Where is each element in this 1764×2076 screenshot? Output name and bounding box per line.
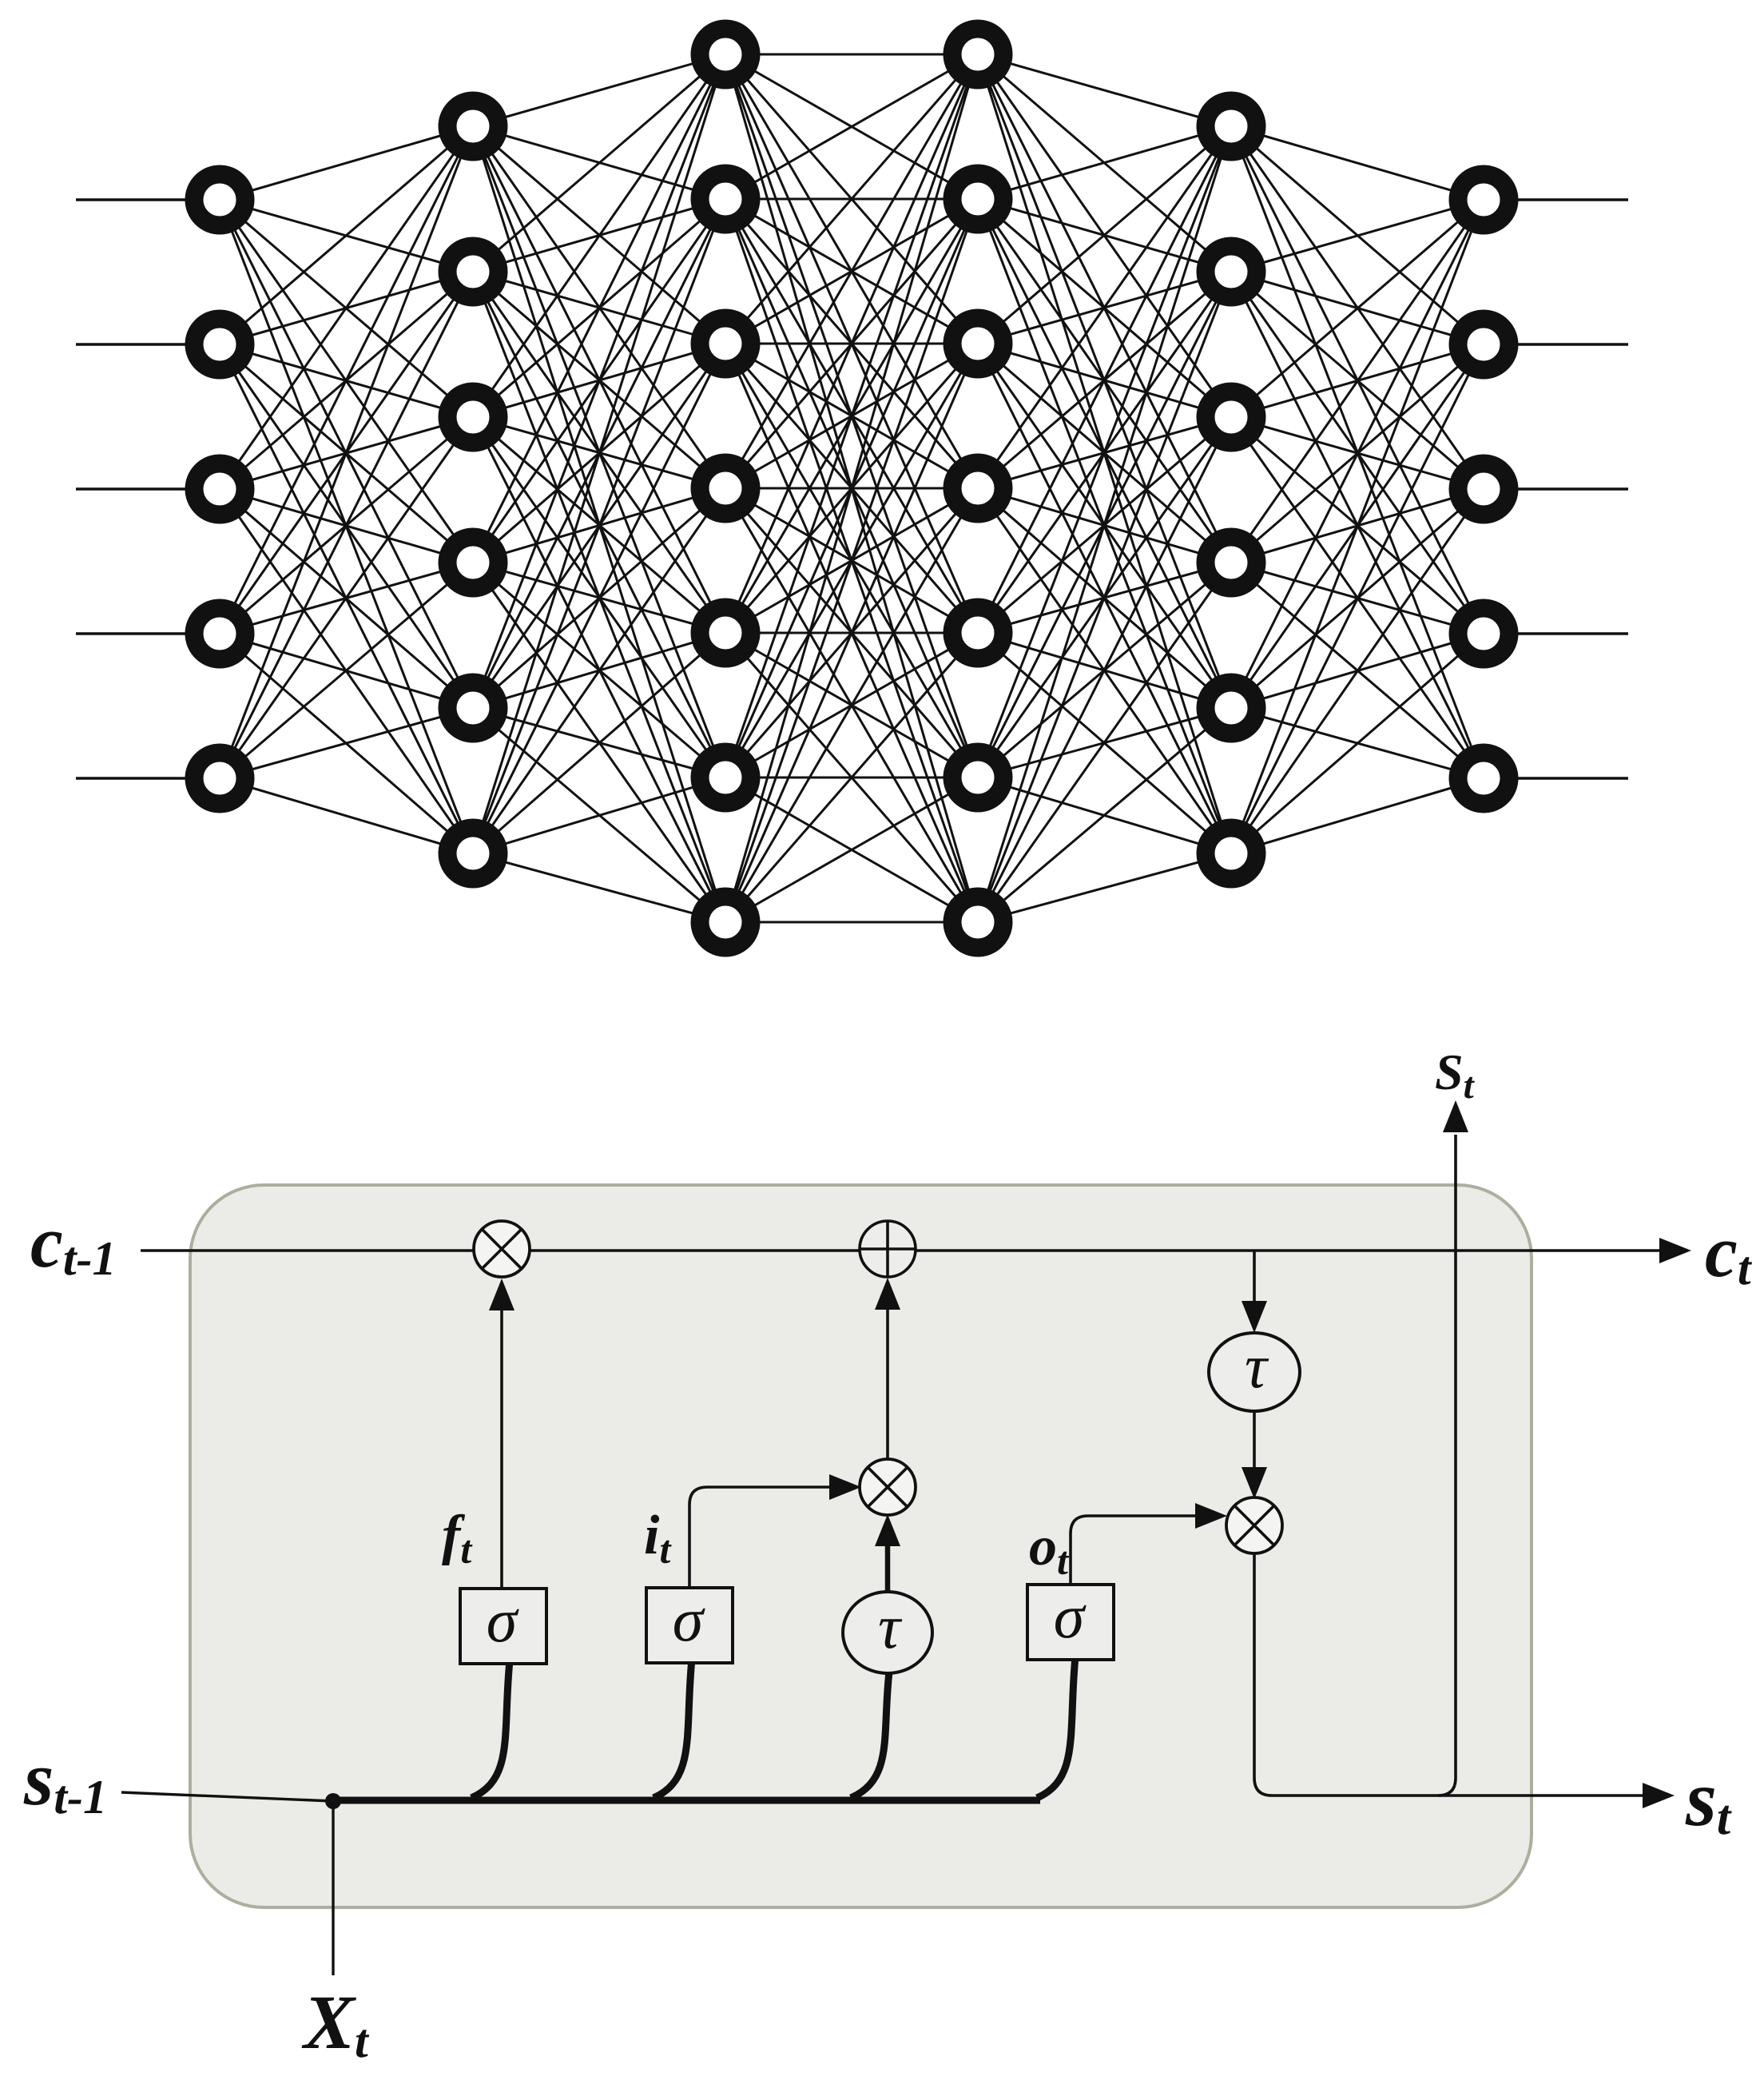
node column: hidden layer 3 neurons bbox=[952, 29, 1003, 948]
svg-text:τ: τ bbox=[878, 1592, 903, 1661]
wire: c_(t-1) to c_t horizontal cell-state line with arrow bbox=[141, 1238, 1691, 1263]
node column: hidden layer 4 neurons bbox=[1206, 101, 1257, 879]
wire bundle: layer 5 to layer 6 full connections bbox=[1231, 126, 1484, 853]
wire: branch up to S_t output at top bbox=[1438, 1100, 1468, 1796]
node column: hidden layer 1 neurons bbox=[447, 101, 499, 879]
wire bundle: layer 2 to layer 3 full connections bbox=[473, 54, 725, 922]
wire bundle: layer 3 to layer 4 full connections bbox=[725, 54, 978, 922]
wire: i_t path from sigma gate to multiply node bbox=[689, 1474, 861, 1589]
wire: input stub lines (left) bbox=[76, 200, 220, 778]
node column: output layer neurons bbox=[1458, 174, 1509, 804]
node column: input layer neurons bbox=[194, 174, 245, 804]
node: junction dot on s line bbox=[325, 1793, 341, 1809]
wire: thick s_(t-1) bus line bbox=[333, 1797, 1040, 1804]
wire: output path from multiply node down and right to s_t arrow bbox=[1254, 1553, 1675, 1808]
wire: curve from bus into tau gate bbox=[851, 1672, 889, 1798]
wire bundle: layer 4 to layer 5 full connections bbox=[978, 54, 1231, 922]
op node: multiply (output) node bbox=[1226, 1497, 1282, 1553]
wire: output stub lines (right) bbox=[1484, 200, 1628, 778]
wire: arrow from tau gate up to multiply node bbox=[875, 1514, 900, 1592]
wire: arrow from multiply node up to add node bbox=[875, 1278, 900, 1460]
wire: curve from bus into sigma f gate bbox=[471, 1660, 510, 1798]
wire: s_(t-1) lead-in line bbox=[121, 1792, 333, 1801]
op node: add node on c line bbox=[860, 1221, 916, 1277]
op node: tau (tanh) upper right bbox=[1209, 1331, 1300, 1411]
LSTM cell body (rounded box) bbox=[190, 1185, 1532, 1907]
wire bundle: layer 1 to layer 2 full connections bbox=[220, 126, 473, 853]
wire: arrow from tau node down to output multiply node bbox=[1242, 1411, 1267, 1499]
node column: hidden layer 2 neurons bbox=[700, 29, 751, 948]
op node: multiply (input) node bbox=[860, 1459, 916, 1515]
op box: sigma gate o bbox=[1027, 1581, 1114, 1660]
wire: curve from bus into sigma i gate bbox=[654, 1659, 692, 1798]
wire: arrow from c line down into tau node bbox=[1242, 1251, 1267, 1333]
svg-text:σ: σ bbox=[487, 1585, 519, 1655]
svg-text:σ: σ bbox=[1054, 1581, 1087, 1651]
wire: o_t path from sigma gate to output multiply node bbox=[1071, 1503, 1227, 1585]
wire: f_t arrow from sigma gate up to multiply node bbox=[489, 1279, 514, 1589]
wire: curve from bus into sigma o gate bbox=[1037, 1656, 1075, 1798]
op box: sigma gate f bbox=[460, 1585, 546, 1664]
svg-text:τ: τ bbox=[1245, 1331, 1269, 1401]
wire: x_t input vertical line bbox=[332, 1801, 334, 1975]
op node: tau (tanh) lower bbox=[843, 1592, 932, 1673]
svg-text:σ: σ bbox=[673, 1585, 705, 1654]
op node: multiply (forget) on c line bbox=[474, 1221, 530, 1277]
op box: sigma gate i bbox=[646, 1585, 733, 1663]
